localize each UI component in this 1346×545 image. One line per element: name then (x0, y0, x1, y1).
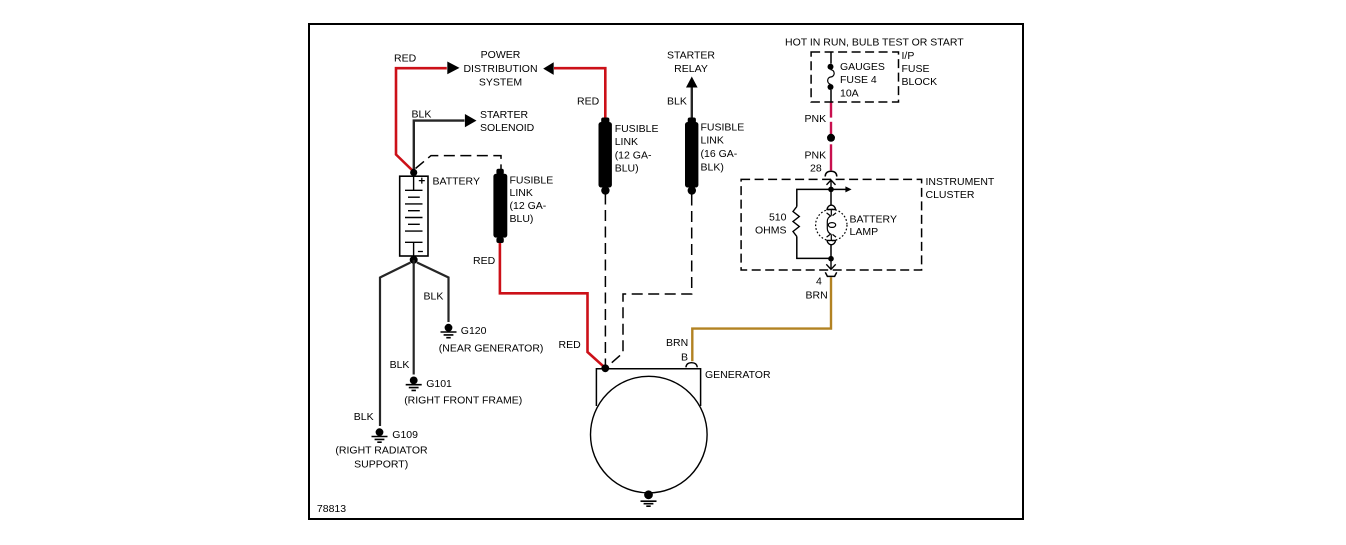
junction dot top of lamp circuit (828, 187, 834, 193)
svg-text:BRN: BRN (806, 289, 828, 301)
instrument cluster dashed box (741, 179, 922, 270)
generator body (591, 369, 708, 493)
svg-text:FUSIBLE: FUSIBLE (510, 174, 554, 186)
wire: dashed 16ga fusible link to generator (608, 195, 692, 367)
svg-text:BRN: BRN (666, 337, 688, 349)
fuse GAUGES FUSE 4 10A (828, 53, 835, 103)
svg-text:78813: 78813 (317, 503, 346, 515)
svg-text:FUSIBLE: FUSIBLE (701, 121, 745, 133)
wire: dashed battery to fusible link near battery (416, 156, 502, 170)
svg-text:BATTERY: BATTERY (850, 213, 897, 225)
svg-text:BLK: BLK (424, 291, 444, 303)
connector 4 half circle (825, 272, 836, 276)
svg-text:(12 GA-: (12 GA- (615, 149, 652, 161)
svg-text:FUSE 4: FUSE 4 (840, 74, 877, 86)
resistor 510 ohms zigzag (793, 207, 799, 237)
arrow into power distribution (right) (543, 62, 554, 75)
junction dot bottom of lamp circuit (828, 256, 834, 262)
svg-text:GAUGES: GAUGES (840, 61, 885, 73)
ground G109 (372, 428, 388, 442)
border frame (309, 24, 1023, 519)
svg-text:LINK: LINK (701, 135, 724, 147)
junction on pink wire (827, 134, 835, 142)
svg-text:RELAY: RELAY (674, 63, 708, 75)
battery bottom junction dot (410, 256, 418, 264)
wire: black battery to starter solenoid (414, 121, 465, 171)
wire: pink fuse to connector 28 (830, 102, 832, 170)
svg-text:B: B (681, 352, 688, 364)
svg-text:LINK: LINK (510, 187, 533, 199)
wire: black battery to G101 (413, 260, 415, 375)
svg-text:FUSE: FUSE (902, 63, 930, 75)
wire: black battery to G120 (417, 263, 449, 323)
I/P fuse block dashed box (811, 52, 898, 102)
svg-text:PNK: PNK (805, 149, 827, 161)
svg-text:STARTER: STARTER (480, 109, 528, 121)
svg-text:SOLENOID: SOLENOID (480, 122, 535, 134)
generator junction dot (601, 364, 609, 372)
wire: black battery to G109 (380, 263, 411, 427)
fusible link 16 GA-BLK (685, 118, 698, 195)
svg-text:I/P: I/P (902, 50, 915, 62)
svg-text:G101: G101 (426, 378, 452, 390)
svg-text:G120: G120 (461, 325, 487, 337)
internal arrow to right (831, 188, 846, 190)
wire: brown generator B to cluster 4 (692, 277, 831, 361)
svg-text:CLUSTER: CLUSTER (926, 189, 975, 201)
svg-text:(RIGHT RADIATOR: (RIGHT RADIATOR (335, 444, 428, 456)
svg-text:LAMP: LAMP (850, 226, 879, 238)
svg-text:BLU): BLU) (615, 163, 639, 175)
wire: red battery to power distribution (396, 68, 447, 171)
svg-text:RED: RED (394, 52, 417, 64)
svg-text:RED: RED (559, 339, 582, 351)
svg-text:BLK: BLK (354, 411, 374, 423)
connector B half circle at generator (686, 363, 697, 368)
svg-text:FUSIBLE: FUSIBLE (615, 123, 659, 135)
svg-text:POWER: POWER (481, 49, 521, 61)
arrow into starter solenoid (465, 114, 477, 127)
wire: red fusible link near battery to generator (500, 243, 605, 368)
ground G120 (441, 324, 457, 338)
svg-text:(RIGHT FRONT FRAME): (RIGHT FRONT FRAME) (404, 394, 522, 406)
svg-text:G109: G109 (392, 429, 418, 441)
svg-text:BLOCK: BLOCK (902, 76, 938, 88)
svg-text:28: 28 (810, 163, 822, 175)
svg-text:(16 GA-: (16 GA- (701, 148, 738, 160)
battery minus sign (418, 251, 423, 253)
wire: dashed 12ga fusible link to generator (604, 194, 606, 365)
battery lamp wires (830, 189, 832, 258)
svg-text:INSTRUMENT: INSTRUMENT (926, 176, 995, 188)
svg-text:BLU): BLU) (510, 213, 534, 225)
svg-text:SYSTEM: SYSTEM (479, 77, 522, 89)
arrow into power distribution (left) (447, 62, 459, 75)
svg-text:SUPPORT): SUPPORT) (354, 459, 408, 471)
battery B+ junction dot (410, 169, 417, 176)
resistor branch wires (797, 189, 831, 258)
svg-text:PNK: PNK (805, 113, 827, 125)
fusible link 12 GA-BLU (center) (599, 118, 612, 195)
svg-text:GENERATOR: GENERATOR (705, 369, 771, 381)
arrow into starter relay (686, 77, 698, 88)
svg-text:BLK: BLK (667, 96, 687, 108)
svg-text:DISTRIBUTION: DISTRIBUTION (463, 63, 537, 75)
fusible link near battery (12 GA-BLU) (493, 169, 507, 243)
battery plus sign (419, 178, 425, 184)
svg-text:BLK): BLK) (701, 161, 724, 173)
svg-text:RED: RED (577, 96, 600, 108)
battery (400, 176, 428, 256)
svg-text:4: 4 (816, 276, 822, 288)
svg-text:10A: 10A (840, 87, 859, 99)
svg-text:LINK: LINK (615, 136, 638, 148)
generator ground (641, 490, 657, 506)
svg-text:(NEAR GENERATOR): (NEAR GENERATOR) (439, 342, 544, 354)
wire: black fusible link to starter relay (691, 86, 693, 118)
svg-text:STARTER: STARTER (667, 50, 715, 62)
connector 28 half circle (825, 171, 837, 176)
svg-text:510: 510 (769, 212, 787, 224)
svg-text:BATTERY: BATTERY (433, 175, 480, 187)
svg-text:RED: RED (473, 255, 496, 267)
svg-text:BLK: BLK (412, 108, 432, 120)
svg-text:HOT IN RUN, BULB TEST OR START: HOT IN RUN, BULB TEST OR START (785, 36, 964, 48)
svg-text:BLK: BLK (390, 359, 410, 371)
battery lamp (816, 205, 847, 245)
ground G101 (406, 377, 422, 391)
open arrow down out of cluster (826, 259, 835, 270)
wire: red fusible link to power distribution (554, 68, 605, 118)
svg-text:(12 GA-: (12 GA- (510, 200, 547, 212)
open arrow up into cluster (827, 180, 836, 189)
svg-text:OHMS: OHMS (755, 225, 787, 237)
